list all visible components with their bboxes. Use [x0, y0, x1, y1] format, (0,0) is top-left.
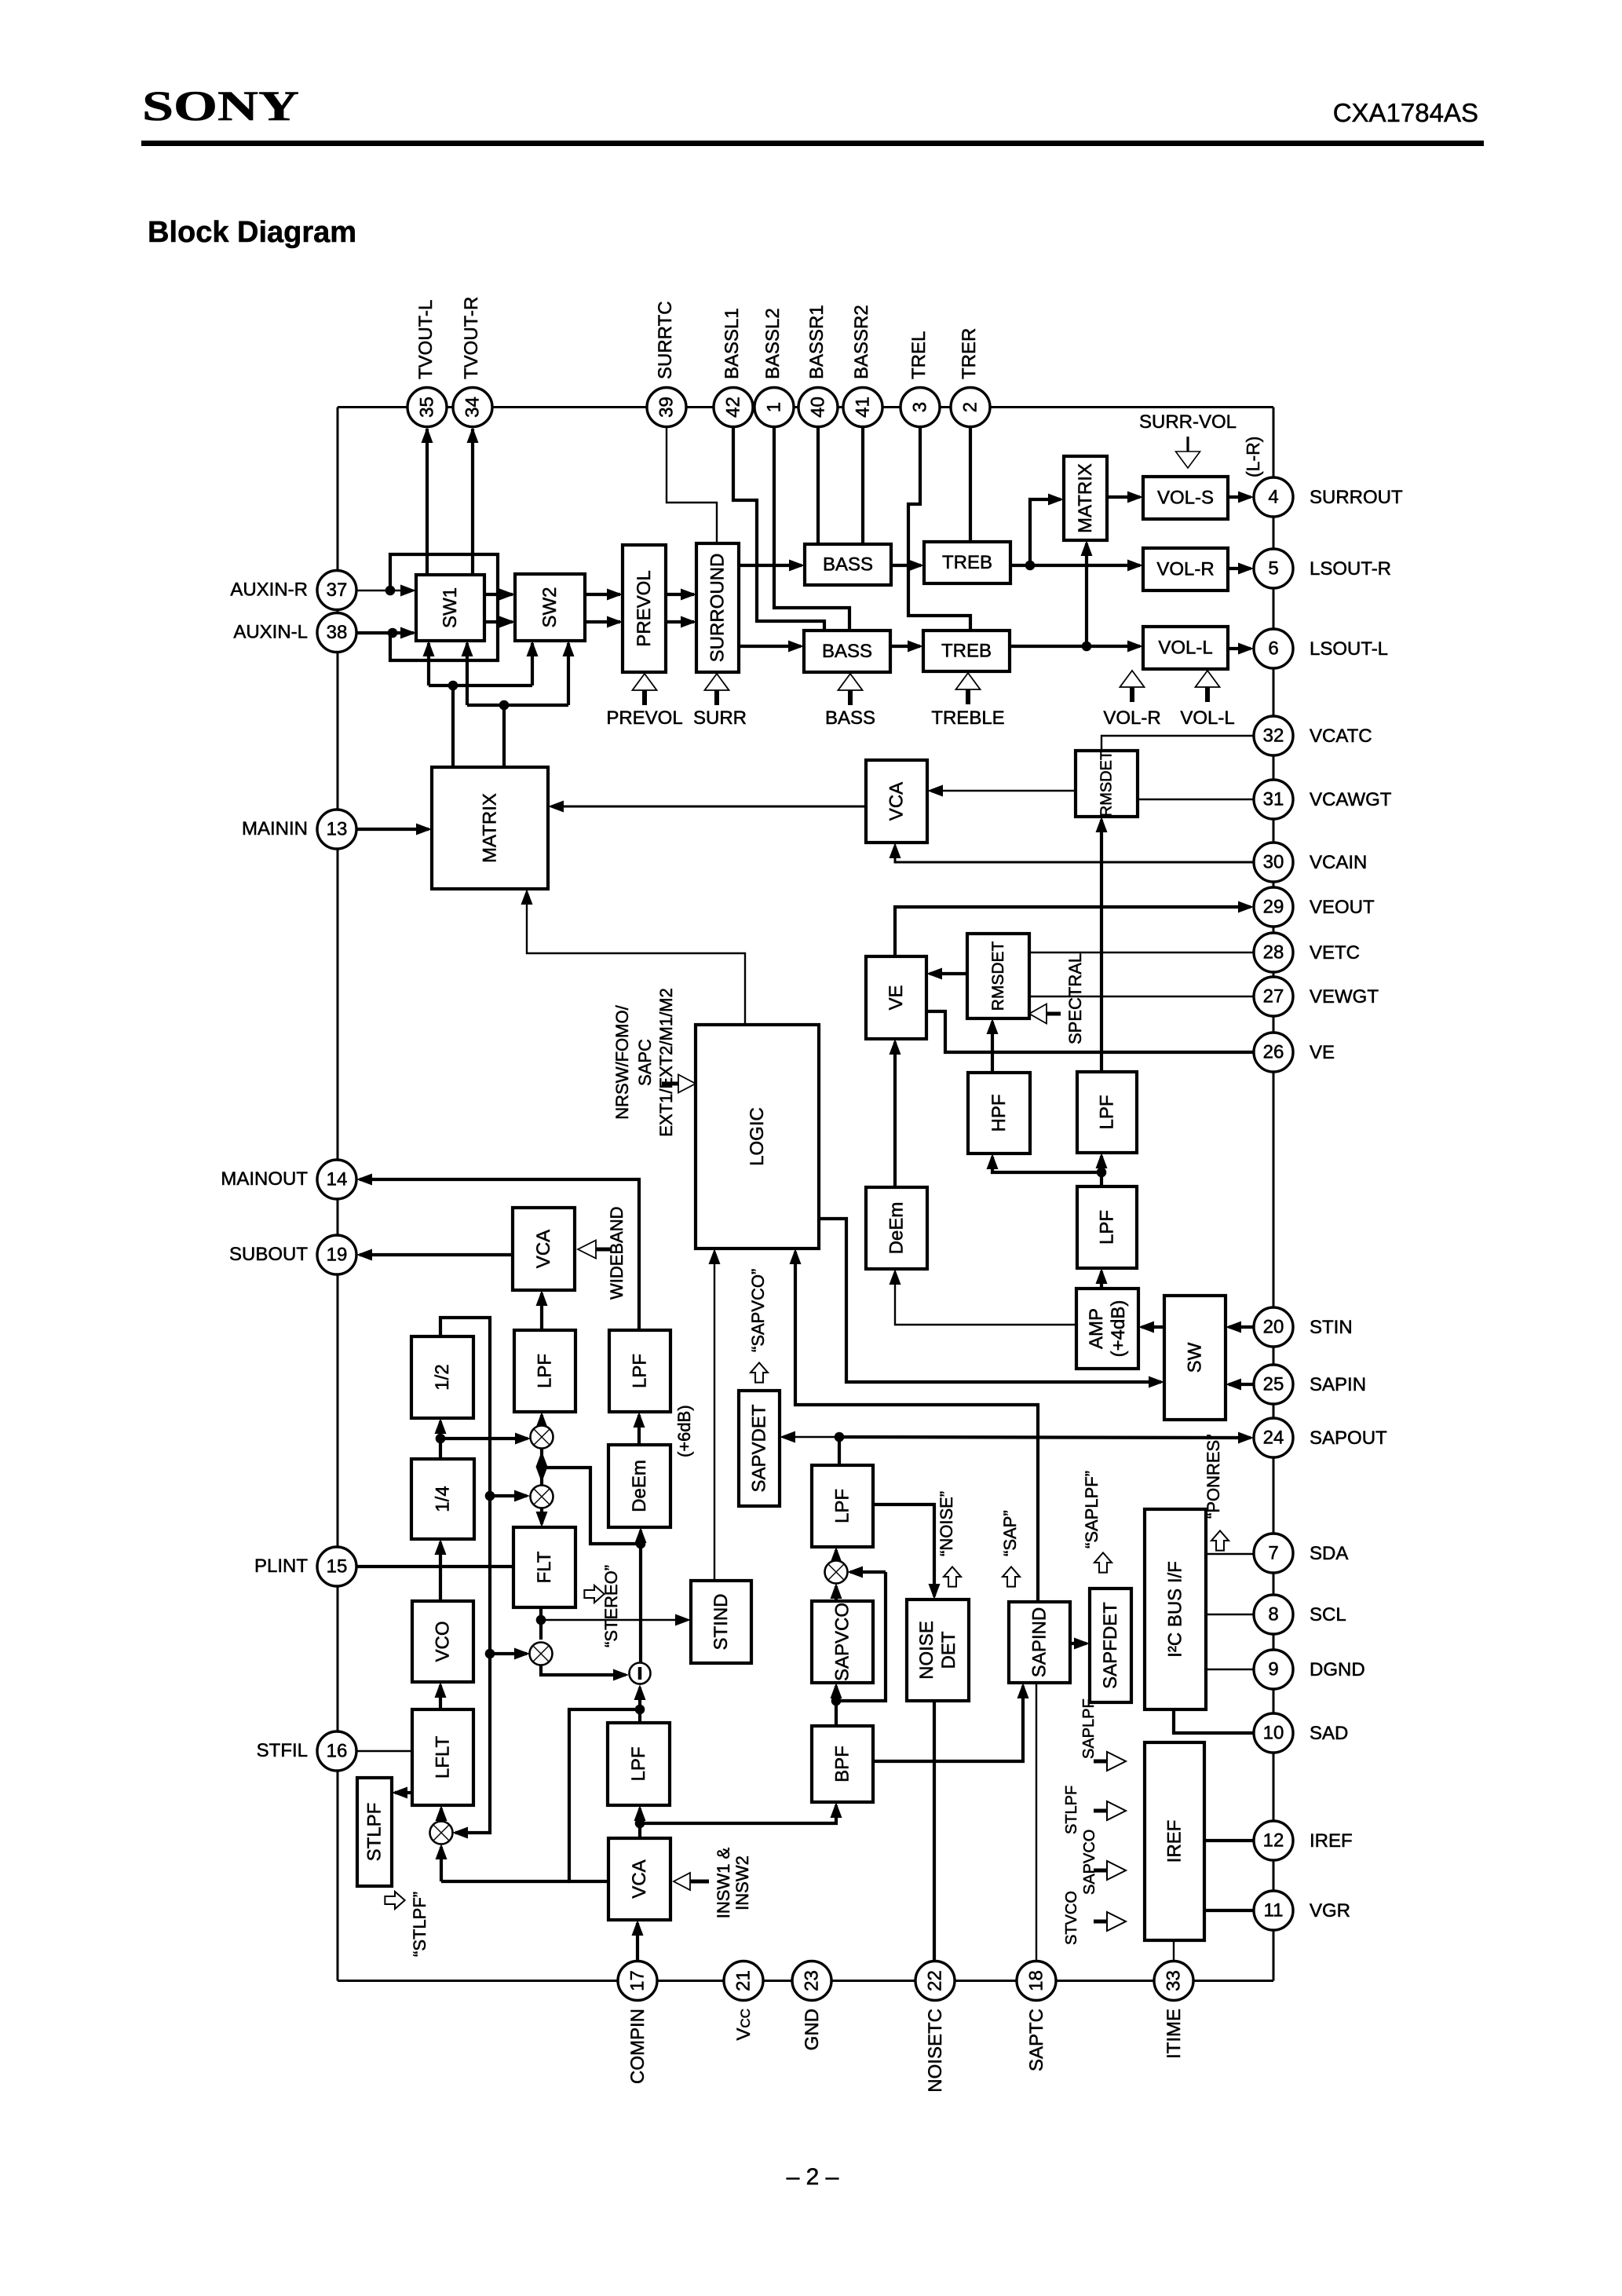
block STLPF: [357, 1778, 392, 1886]
wire VE right to pin26 VE: [926, 1011, 1254, 1052]
block divider 1/4: [411, 1459, 474, 1539]
svg-text:NRSW/FOMO/: NRSW/FOMO/: [612, 1004, 632, 1119]
svg-text:SAPFDET: SAPFDET: [1100, 1602, 1121, 1689]
mixer M3: [430, 1822, 453, 1844]
svg-text:DGND: DGND: [1310, 1659, 1365, 1680]
svg-text:29: 29: [1263, 897, 1284, 918]
pin 15 PLINT: [317, 1547, 356, 1586]
svg-text:SDA: SDA: [1310, 1543, 1348, 1564]
block SW1: [416, 575, 484, 641]
pin 38 AUXIN-L: [317, 613, 356, 653]
pin 28 VETC: [1254, 933, 1293, 972]
svg-text:12: 12: [1263, 1830, 1284, 1852]
svg-text:LOGIC: LOGIC: [747, 1107, 768, 1166]
wire LPF sap to SAPVDET and pin24 SAPOUT: [838, 1437, 841, 1465]
wire AUX bypass loop around SW1: [390, 554, 498, 660]
wire LPF to VCA2: [540, 1293, 543, 1330]
wire pin25 SAPIN to SW: [1229, 1383, 1254, 1386]
svg-text:PREVOL: PREVOL: [606, 707, 682, 729]
wire pin39 SURRTC to SURROUND: [667, 426, 717, 543]
junction dot AUXIN-L: [388, 628, 398, 638]
svg-text:27: 27: [1263, 986, 1284, 1007]
svg-text:SAPVCO: SAPVCO: [832, 1603, 853, 1681]
wire pin31 VCAWGT to RMSDET: [1138, 799, 1254, 800]
svg-text:“STLPF”: “STLPF”: [410, 1892, 429, 1957]
pin 34 TVOUT-R: [453, 388, 492, 427]
block I2C BUS I/F: [1145, 1509, 1206, 1709]
wire BPF out to SAPIND: [873, 1686, 1023, 1761]
wire AMP to LPF2: [1100, 1271, 1103, 1289]
svg-text:VCATC: VCATC: [1310, 726, 1372, 747]
svg-text:TVOUT-R: TVOUT-R: [461, 297, 482, 379]
svg-text:VE: VE: [886, 985, 907, 1010]
mixer M2: [531, 1486, 553, 1508]
SPECTRAL control triangle: [1029, 1004, 1047, 1024]
svg-text:SURROUT: SURROUT: [1310, 487, 1403, 508]
junction dot VCA3 top: [635, 1819, 645, 1829]
block LFLT: [412, 1709, 473, 1805]
svg-text:(+4dB): (+4dB): [1108, 1300, 1129, 1358]
IC boundary left rail: [337, 408, 339, 1981]
wire branch to mixer1: [440, 1437, 528, 1440]
svg-text:NOISE: NOISE: [916, 1621, 937, 1680]
wire LPF to minus circle bottom: [638, 1687, 641, 1723]
pin 42 BASSL1: [714, 388, 753, 427]
svg-text:40: 40: [808, 397, 829, 418]
svg-text:14: 14: [327, 1169, 348, 1190]
svg-text:16: 16: [327, 1741, 348, 1762]
pin 11 VGR: [1254, 1891, 1293, 1930]
junction dot LPF riser: [1097, 1168, 1107, 1178]
wire pin2 TRER to TREB1: [969, 426, 972, 542]
wire SW1 to pin34 TVOUT-R: [471, 429, 474, 575]
svg-text:STIND: STIND: [711, 1594, 732, 1651]
hollow arrow SAPVCO control: [751, 1362, 768, 1382]
svg-text:15: 15: [327, 1556, 348, 1578]
wire feedback into SW1 bottom B: [466, 643, 469, 705]
wire VE top to pin29 VEOUT: [895, 907, 1251, 956]
wire pin13 MAININ to MATRIX: [356, 828, 429, 831]
mixer M1: [531, 1426, 553, 1449]
svg-text:VCA: VCA: [533, 1230, 554, 1268]
svg-text:STVCO: STVCO: [1063, 1891, 1080, 1945]
pin 35 TVOUT-L: [407, 388, 447, 427]
pin 7 SDA: [1254, 1534, 1293, 1573]
pin 30 VCAIN: [1254, 843, 1293, 882]
svg-text:SCL: SCL: [1310, 1604, 1346, 1625]
svg-text:VOL-L: VOL-L: [1158, 638, 1212, 659]
pin 40 BASSR1: [798, 388, 838, 427]
svg-text:31: 31: [1263, 789, 1284, 810]
junction dot to mixer2: [485, 1491, 495, 1501]
IREF control triangle SAPLPF: [1107, 1752, 1126, 1771]
svg-text:SAPVDET: SAPVDET: [749, 1404, 770, 1492]
svg-text:LPF: LPF: [535, 1354, 556, 1388]
pin 2 TRER: [951, 388, 990, 427]
junction dot SAPVCO bottom: [831, 1696, 842, 1706]
wire NOISE DET to pin22 NOISETC: [933, 1701, 936, 1961]
junction dot 1/4 out: [436, 1434, 446, 1444]
svg-text:VOL-L: VOL-L: [1180, 707, 1234, 729]
svg-text:STLPF: STLPF: [364, 1803, 385, 1862]
pin 18 SAPTC: [1017, 1961, 1056, 2001]
wire pin1 BASSL2 to BASS2: [774, 426, 849, 631]
wire mixer junction to DeEm1 riser: [542, 1468, 641, 1544]
wire SW1 to pin35 TVOUT-L: [426, 429, 429, 575]
svg-text:SURRTC: SURRTC: [655, 301, 676, 379]
wire pin37 AUXIN-R to SW1: [356, 590, 414, 592]
wire between mixer1 and mixer2: [540, 1448, 543, 1486]
svg-text:1/2: 1/2: [432, 1364, 453, 1390]
svg-text:42: 42: [723, 397, 744, 418]
junction dot TREB2 out: [1082, 642, 1092, 652]
block DeEm right: [866, 1187, 927, 1269]
junction dot rail B: [499, 700, 510, 711]
block LOGIC: [696, 1025, 819, 1249]
wire VCA to MATRIX: [551, 806, 866, 808]
wire RMSDET to VCA: [930, 790, 1076, 792]
wire pin38 AUXIN-L to SW1: [356, 631, 414, 634]
pin 19 SUBOUT: [317, 1235, 356, 1274]
svg-text:DeEm: DeEm: [629, 1460, 650, 1512]
IREF control triangle SAPVCO: [1107, 1861, 1126, 1880]
wire junction down to minus circle top: [639, 1544, 642, 1662]
wire IREF to pin11 VGR: [1204, 1909, 1254, 1912]
block FLT: [513, 1527, 575, 1607]
wire BASS2 to TREB2: [890, 645, 920, 648]
pin 13 MAININ: [317, 810, 356, 849]
wire LOGIC to SW: [819, 1219, 1161, 1382]
svg-text:33: 33: [1164, 1970, 1185, 1991]
block RMSDET lower: [967, 934, 1029, 1018]
svg-text:3: 3: [910, 402, 931, 412]
junction dot SAPOUT: [835, 1432, 845, 1442]
svg-text:SW: SW: [1185, 1342, 1206, 1373]
svg-text:INSW1 &: INSW1 &: [714, 1847, 733, 1918]
svg-text:VCA: VCA: [886, 782, 908, 821]
svg-text:SAPIND: SAPIND: [1029, 1607, 1050, 1677]
block AMP +4dB: [1076, 1289, 1138, 1369]
pin 4 SURROUT: [1254, 477, 1293, 517]
wire IREF to pin12 IREF: [1204, 1839, 1254, 1842]
wire STIND to LOGIC: [714, 1252, 715, 1581]
block NOISE DET: [907, 1600, 969, 1701]
wire MATRIX to VOL-S: [1107, 495, 1140, 499]
control triangle BASS: [838, 674, 863, 690]
junction dot AUXIN-R: [385, 586, 396, 596]
svg-text:28: 28: [1263, 942, 1284, 963]
wire IREF bottom to pin33 ITIME: [1173, 1940, 1174, 1961]
pin 31 VCAWGT: [1254, 780, 1293, 819]
svg-text:MAININ: MAININ: [242, 818, 308, 839]
pin 3 TREL: [901, 388, 940, 427]
SURR-VOL control stem and triangle: [1186, 437, 1189, 452]
svg-text:BASSR2: BASSR2: [851, 305, 872, 379]
svg-text:TRER: TRER: [959, 328, 980, 379]
wire pin16 STFIL to LFLT: [356, 1750, 412, 1752]
wire mixer1 to LPF: [540, 1415, 543, 1426]
svg-text:LSOUT-R: LSOUT-R: [1310, 558, 1391, 579]
wire BPF to SAPVCO: [835, 1686, 838, 1726]
svg-text:6: 6: [1268, 638, 1278, 660]
wire SW to AMP: [1142, 1325, 1164, 1329]
wire LPF2 to LPF1: [1100, 1156, 1103, 1186]
wire junction to HPF bottom: [992, 1157, 1101, 1172]
svg-text:SAPLPF: SAPLPF: [1080, 1698, 1098, 1759]
block MATRIX main: [432, 767, 548, 889]
control triangle VOL-L: [1196, 671, 1220, 687]
block LPF right upper: [1077, 1072, 1137, 1153]
svg-text:RMSDET: RMSDET: [989, 941, 1007, 1011]
block LPF mid: [514, 1330, 575, 1412]
wire PREVOL to SURROUND lower: [666, 620, 694, 623]
svg-text:AUXIN-L: AUXIN-L: [233, 622, 308, 643]
svg-text:IREF: IREF: [1310, 1830, 1353, 1852]
svg-text:25: 25: [1263, 1374, 1284, 1395]
svg-text:SUBOUT: SUBOUT: [229, 1244, 308, 1265]
wire SAPVCO to mixer5: [835, 1586, 838, 1601]
wire LOGIC top to MATRIX bottom: [527, 892, 745, 1025]
svg-text:22: 22: [925, 1970, 946, 1991]
wire mixer2 to FLT top: [540, 1508, 543, 1524]
wire VCA3 top to LPF bottom: [638, 1808, 641, 1838]
svg-text:BASSL2: BASSL2: [762, 308, 784, 379]
svg-text:VCAIN: VCAIN: [1310, 852, 1367, 873]
block DeEm left: [608, 1445, 670, 1527]
wire feedback into SW2 bottom A: [531, 643, 534, 686]
wire pin17 COMPIN to VCA3: [636, 1923, 639, 1961]
svg-text:DeEm: DeEm: [886, 1202, 908, 1255]
control triangle PREVOL: [633, 674, 657, 690]
wire mixer5 to LPFsap: [835, 1550, 838, 1561]
svg-text:21: 21: [733, 1970, 754, 1991]
junction dot LPF top: [635, 1705, 645, 1715]
block SAPVDET: [739, 1391, 780, 1506]
wire feedback rail B to MATRIX: [467, 704, 568, 707]
wire DeEm2 to VE bottom: [893, 1042, 897, 1187]
block HPF: [968, 1073, 1030, 1153]
wire SAPIND to LOGIC: [795, 1252, 1038, 1602]
block TREB upper: [924, 542, 1010, 583]
pin 29 VEOUT: [1254, 887, 1293, 927]
wire LPF up to RMSDET bottom: [1100, 820, 1103, 1072]
pin 20 STIN: [1254, 1307, 1293, 1347]
block BASS upper: [805, 544, 891, 585]
IC boundary bottom rail: [338, 1980, 1273, 1982]
svg-text:18: 18: [1026, 1970, 1047, 1991]
svg-text:(L-R): (L-R): [1243, 437, 1263, 477]
svg-text:“PONRES”: “PONRES”: [1204, 1434, 1223, 1519]
svg-text:LPF: LPF: [630, 1354, 651, 1388]
svg-text:VCA: VCA: [629, 1859, 650, 1898]
pin 23 GND: [792, 1961, 831, 2001]
svg-text:MATRIX: MATRIX: [480, 793, 501, 863]
block VOL-L: [1143, 627, 1228, 669]
minus circle: [630, 1663, 651, 1684]
svg-text:11: 11: [1264, 1900, 1284, 1921]
svg-text:LSOUT-L: LSOUT-L: [1310, 638, 1388, 660]
svg-text:DET: DET: [938, 1631, 959, 1669]
svg-text:TVOUT-L: TVOUT-L: [415, 300, 437, 379]
svg-text:24: 24: [1263, 1428, 1284, 1449]
wire pin42 BASSL1 to BASS2: [733, 426, 824, 631]
wire LPFsap right to NOISE DET: [873, 1504, 934, 1596]
wire feedback to mixer5 right: [836, 1572, 886, 1701]
svg-text:7: 7: [1268, 1543, 1278, 1564]
svg-text:SAPC: SAPC: [635, 1039, 655, 1086]
wire pin20 STIN to SW: [1229, 1325, 1254, 1329]
wire TREB2 to VOL-L: [1010, 645, 1140, 648]
svg-text:26: 26: [1263, 1042, 1284, 1063]
svg-text:WIDEBAND: WIDEBAND: [607, 1206, 627, 1300]
svg-text:PREVOL: PREVOL: [634, 570, 655, 646]
svg-text:VOL-R: VOL-R: [1156, 559, 1214, 580]
block BASS lower: [804, 631, 890, 672]
svg-text:TREBLE: TREBLE: [931, 707, 1004, 729]
svg-text:LPF: LPF: [628, 1746, 649, 1781]
wire HPF to RMSDET2 bottom: [991, 1022, 994, 1073]
block VCA wideband: [513, 1208, 575, 1290]
svg-text:“SAP”: “SAP”: [1000, 1510, 1020, 1556]
block SURROUND: [696, 543, 739, 672]
wire LFLT to STLPF: [395, 1791, 412, 1794]
wire VCA2 to pin19 SUBOUT: [360, 1253, 513, 1256]
wire RMSDET2 to VE: [930, 972, 967, 975]
svg-text:“NOISE”: “NOISE”: [937, 1491, 956, 1556]
svg-text:BASS: BASS: [825, 707, 875, 729]
svg-text:SURROUND: SURROUND: [707, 554, 729, 663]
pin 10 SAD: [1254, 1713, 1293, 1753]
pin 26 VE: [1254, 1033, 1293, 1072]
wire BASS1 to TREB1: [891, 564, 921, 567]
svg-text:SONY: SONY: [142, 82, 299, 130]
svg-text:2: 2: [960, 402, 981, 412]
block SW2: [515, 574, 585, 641]
wire RMSDET2 to pin28 VETC: [1029, 952, 1254, 953]
wire pin15 PLINT to FLT: [356, 1565, 513, 1568]
svg-text:SAPVCO: SAPVCO: [1081, 1830, 1098, 1895]
svg-text:BASSR1: BASSR1: [806, 305, 827, 379]
wire pin41 BASSR2 to BASS1: [861, 426, 864, 544]
wire feedback rail A to MATRIX: [429, 684, 532, 687]
svg-text:STFIL: STFIL: [257, 1740, 308, 1761]
hollow arrow NOISE control: [944, 1567, 961, 1586]
junction dot TREB1 out: [1025, 561, 1036, 571]
svg-text:BPF: BPF: [832, 1746, 853, 1782]
pin 5 LSOUT-R: [1254, 549, 1293, 588]
wire RMSDET2 to pin27 VEWGT: [1029, 996, 1254, 997]
svg-text:19: 19: [327, 1245, 348, 1266]
IREF control triangle STVCO: [1107, 1912, 1126, 1931]
hollow arrow SAPLPF control: [1094, 1552, 1112, 1572]
hollow arrow SAP control: [1003, 1567, 1020, 1586]
wire DeEm1 to LPF+6dB: [637, 1415, 641, 1445]
svg-text:– 2 –: – 2 –: [787, 2164, 839, 2190]
svg-text:SAPIN: SAPIN: [1310, 1374, 1366, 1395]
wire VOL-L to pin6: [1228, 647, 1251, 650]
svg-text:GND: GND: [802, 2009, 823, 2050]
wire TREB1 to VOL-R: [1010, 564, 1140, 567]
svg-text:23: 23: [802, 1970, 823, 1991]
block TREB lower: [923, 631, 1010, 671]
svg-text:COMPIN: COMPIN: [627, 2009, 648, 2084]
svg-text:VETC: VETC: [1310, 942, 1360, 963]
svg-text:4: 4: [1268, 487, 1278, 508]
svg-text:VCAWGT: VCAWGT: [1310, 789, 1392, 810]
svg-text:BASSL1: BASSL1: [721, 308, 743, 379]
svg-text:(+6dB): (+6dB): [674, 1405, 694, 1457]
svg-text:41: 41: [853, 397, 874, 418]
wire mixer3 to LFLT: [440, 1808, 443, 1822]
wire PREVOL to SURROUND upper: [666, 593, 694, 596]
pin 25 SAPIN: [1254, 1365, 1293, 1404]
pin 24 SAPOUT: [1254, 1418, 1293, 1457]
pin 14 MAINOUT: [317, 1160, 356, 1199]
svg-text:9: 9: [1268, 1659, 1278, 1680]
IC boundary top rail: [338, 406, 1273, 408]
pin 9 DGND: [1254, 1650, 1293, 1689]
pin 32 VCATC: [1254, 716, 1293, 755]
wire I2C to pin9 DGND: [1206, 1669, 1254, 1670]
svg-text:IREF: IREF: [1164, 1820, 1185, 1863]
wire pin3 TREL to TREB2: [908, 426, 970, 631]
svg-text:37: 37: [327, 579, 348, 601]
svg-text:LPF: LPF: [1097, 1095, 1118, 1129]
wire pin40 BASSR1 to BASS1: [816, 426, 820, 544]
wire long vertical from 1/2 loop down to mixer3: [440, 1318, 490, 1833]
block LPF sap: [812, 1465, 873, 1547]
junction dot DeEm1 riser: [636, 1539, 646, 1549]
svg-text:SURR-VOL: SURR-VOL: [1139, 411, 1237, 433]
svg-text:INSW2: INSW2: [732, 1855, 752, 1910]
svg-text:SAD: SAD: [1310, 1723, 1348, 1744]
svg-text:34: 34: [462, 397, 484, 418]
svg-text:Block Diagram: Block Diagram: [148, 216, 356, 249]
wire SURROUND to BASS1: [739, 564, 802, 567]
pin 33 ITIME: [1154, 1961, 1193, 2001]
block SAPVCO: [812, 1601, 873, 1683]
svg-text:VGR: VGR: [1310, 1900, 1350, 1921]
block LPF right lower: [1077, 1186, 1137, 1268]
wire pin30 VCAIN to VCA bottom: [895, 846, 1254, 862]
wire feedback into SW2 bottom B: [567, 643, 570, 705]
block LPF +6dB: [609, 1330, 670, 1412]
svg-text:SW2: SW2: [539, 587, 561, 627]
svg-text:AMP: AMP: [1086, 1308, 1107, 1349]
svg-text:MAINOUT: MAINOUT: [221, 1168, 308, 1190]
block IREF: [1145, 1742, 1204, 1940]
block VOL-R: [1143, 548, 1228, 590]
wire VOL-S to pin4: [1228, 495, 1251, 499]
pin 41 BASSR2: [843, 388, 882, 427]
pin 27 VEWGT: [1254, 977, 1293, 1016]
block VCA bottom: [608, 1838, 670, 1920]
svg-text:SURR: SURR: [693, 707, 747, 729]
svg-text:LPF: LPF: [1097, 1210, 1118, 1245]
IC boundary right rail: [1273, 408, 1275, 1981]
svg-text:30: 30: [1263, 852, 1284, 873]
pin 1 BASSL2: [754, 388, 794, 427]
wire mixer4 output to minus circle: [541, 1663, 626, 1675]
wire feedback into SW1 bottom A: [427, 643, 430, 686]
block SW switch: [1164, 1296, 1226, 1420]
svg-text:32: 32: [1263, 726, 1284, 747]
block VE: [866, 956, 926, 1039]
svg-text:CXA1784AS: CXA1784AS: [1333, 98, 1478, 127]
svg-text:35: 35: [417, 397, 438, 418]
pin 17 COMPIN: [618, 1961, 657, 2001]
header rule: [141, 141, 1484, 146]
